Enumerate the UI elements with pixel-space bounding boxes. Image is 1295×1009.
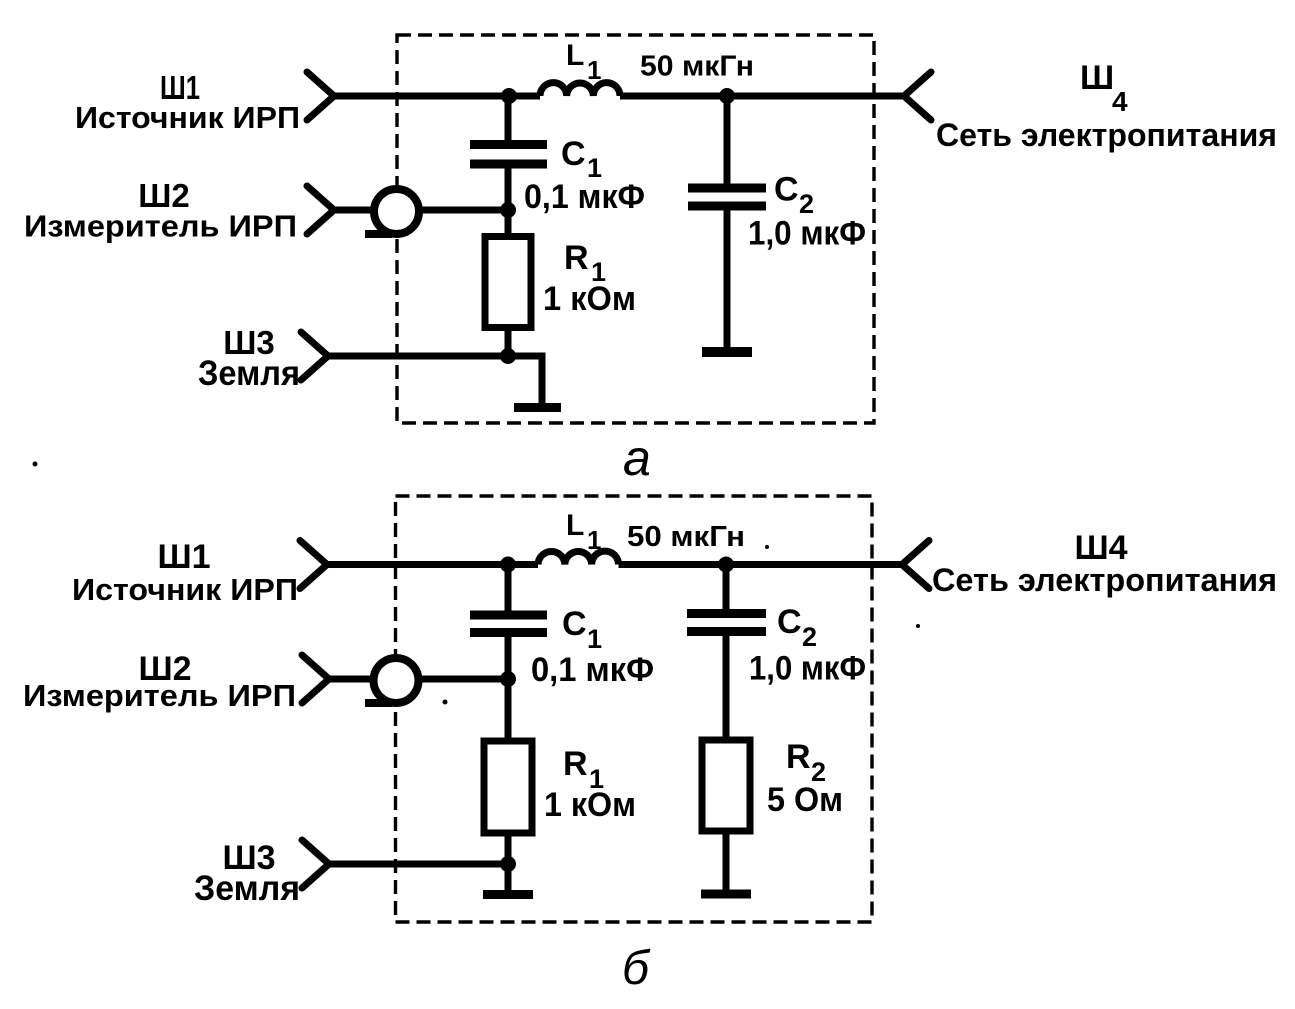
svg-text:C: C	[777, 603, 802, 641]
svg-text:L: L	[566, 39, 584, 72]
svg-text:C: C	[561, 135, 586, 173]
coax connector circle (Ш2, b)	[374, 658, 419, 703]
connector Ш1 fork (b)	[300, 541, 327, 589]
svg-text:0,1 мкФ: 0,1 мкФ	[524, 178, 645, 216]
wire: coax circle to node 3	[421, 207, 508, 214]
coax connector circle (Ш2)	[374, 189, 419, 234]
svg-text:Сеть электропитания: Сеть электропитания	[936, 117, 1277, 153]
dashed enclosure box (circuit b)	[396, 496, 873, 922]
node 1 junction dot	[501, 88, 517, 104]
wire: C1 down through node 3 to R1	[505, 164, 512, 236]
wire: Ш2 to coax circle (b)	[329, 676, 372, 683]
svg-text:Ш1: Ш1	[157, 538, 210, 576]
svg-text:1: 1	[587, 624, 602, 654]
ground bar (right, circuit b)	[701, 890, 751, 899]
wire: Ш2 to coax circle	[334, 207, 372, 214]
connector Ш4 fork	[904, 72, 931, 120]
connector Ш2 fork	[307, 186, 334, 234]
ground bar (left, circuit b)	[483, 890, 533, 899]
capacitor C1 plates	[470, 145, 547, 165]
wire: node 6 down to C2 (b)	[723, 565, 730, 616]
ground bar (left, circuit a)	[514, 403, 561, 412]
svg-text:Земля: Земля	[194, 869, 300, 908]
svg-text:Измеритель ИРП: Измеритель ИРП	[24, 209, 297, 244]
wire: node 2 down to C2	[724, 96, 731, 189]
svg-text:1 кОм: 1 кОм	[543, 280, 636, 318]
svg-text:50 мкГн: 50 мкГн	[640, 51, 754, 83]
svg-text:Сеть электропитания: Сеть электропитания	[932, 562, 1277, 598]
svg-text:5 Ом: 5 Ом	[767, 781, 843, 819]
svg-text:C: C	[774, 171, 799, 209]
svg-text:50 мкГн: 50 мкГн	[627, 521, 745, 553]
connector Ш4 fork (b)	[902, 541, 929, 589]
coax connector tail	[365, 230, 392, 238]
wire: C2 down to ground	[724, 206, 731, 350]
svg-text:R: R	[563, 745, 588, 783]
svg-text:1: 1	[587, 55, 601, 85]
svg-text:0,1 мкФ: 0,1 мкФ	[531, 651, 654, 689]
svg-text:Источник ИРП: Источник ИРП	[72, 572, 298, 607]
svg-text:б: б	[622, 942, 651, 995]
node 7 junction dot	[500, 671, 516, 687]
capacitor C2 plates (b)	[687, 614, 766, 632]
svg-text:Источник ИРП: Источник ИРП	[75, 100, 300, 135]
svg-text:4: 4	[1112, 86, 1128, 117]
wire: Ш1 input to node 1	[334, 93, 540, 100]
wire: node 5 down to C1	[505, 565, 512, 617]
connector Ш2 fork (b)	[302, 655, 329, 703]
wire: R2 down to ground	[723, 835, 730, 892]
node 6 junction dot	[718, 557, 734, 573]
connector Ш3 fork	[301, 332, 328, 380]
inductor L1 (b)	[538, 551, 619, 564]
node 5 junction dot	[500, 557, 516, 573]
wire: coax circle to node 7	[420, 676, 508, 683]
wire: C2 down to R2	[723, 631, 730, 739]
connector Ш1 fork	[307, 72, 334, 120]
svg-text:R: R	[564, 239, 589, 277]
wire: C1 down through node 7 to R1	[505, 632, 512, 740]
node 8 junction dot	[500, 856, 516, 872]
node 2 junction dot	[719, 88, 735, 104]
inductor L1	[540, 83, 620, 96]
ground bar (right, circuit a)	[702, 347, 752, 357]
svg-text:C: C	[562, 605, 587, 643]
wire: R1 down to ground (b)	[505, 837, 512, 892]
svg-text:1: 1	[587, 525, 601, 555]
svg-text:1 кОм: 1 кОм	[544, 786, 636, 824]
svg-text:R: R	[786, 738, 811, 776]
resistor R1 body (b)	[484, 741, 532, 833]
resistor R1 body	[485, 237, 531, 328]
wire: R1 down to node 4	[505, 331, 512, 356]
wire: inductor to node 2 and on to Ш4	[620, 93, 904, 100]
svg-text:1,0 мкФ: 1,0 мкФ	[748, 215, 866, 253]
wire: Ш3 ground rail to corner	[328, 356, 542, 404]
wire: Ш1 input to node 5	[327, 561, 538, 568]
resistor R2 body	[702, 740, 750, 831]
svg-text:1,0 мкФ: 1,0 мкФ	[749, 650, 866, 688]
svg-text:Ш: Ш	[1080, 59, 1114, 97]
wire: node 1 down to C1	[505, 96, 512, 146]
node 3 junction dot	[500, 202, 516, 218]
node 4 junction dot	[500, 348, 516, 364]
svg-text:L: L	[566, 509, 584, 542]
wire: inductor to node 6 and on to Ш4	[619, 561, 903, 568]
connector Ш3 fork (b)	[302, 840, 329, 888]
speck artifacts	[33, 462, 921, 705]
svg-text:Измеритель ИРП: Измеритель ИРП	[23, 678, 296, 713]
wire: Ш3 ground rail (b)	[329, 861, 508, 868]
svg-text:а: а	[623, 430, 651, 486]
dashed enclosure box (circuit a)	[397, 35, 874, 423]
svg-text:Земля: Земля	[198, 354, 300, 393]
capacitor C2 plates	[688, 188, 766, 206]
capacitor C1 plates (b)	[470, 615, 547, 633]
svg-text:2: 2	[802, 622, 817, 652]
coax connector tail (b)	[365, 699, 392, 707]
